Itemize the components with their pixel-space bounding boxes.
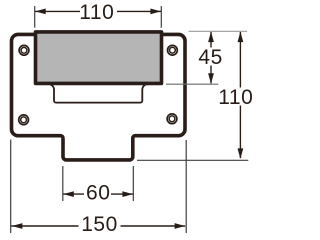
svg-text:60: 60 bbox=[86, 181, 110, 204]
extension lines bbox=[11, 6, 249, 233]
gray connector block bbox=[36, 32, 162, 84]
extension line top-right (45/110 datum) bbox=[189, 30, 248, 32]
dimension 45 right bbox=[210, 32, 212, 83]
hole top-right bbox=[168, 45, 178, 55]
mounting plate outline with bottom tab bbox=[11, 34, 185, 160]
extension line at gray block bottom (45 datum) bbox=[166, 83, 218, 85]
dimension 110 top bbox=[35, 10, 161, 12]
svg-text:45: 45 bbox=[198, 46, 222, 69]
svg-text:110: 110 bbox=[79, 1, 114, 24]
dimension 60 bottom bbox=[63, 193, 133, 195]
hole bottom-left bbox=[19, 115, 29, 125]
hole bottom-right bbox=[167, 114, 177, 124]
inner tongue outline bbox=[48, 84, 148, 103]
hole top-left bbox=[19, 45, 29, 55]
svg-text:110: 110 bbox=[218, 86, 253, 109]
dimension 110 right bbox=[239, 32, 241, 158]
svg-text:150: 150 bbox=[81, 213, 118, 236]
dimension 150 bottom bbox=[11, 225, 185, 227]
